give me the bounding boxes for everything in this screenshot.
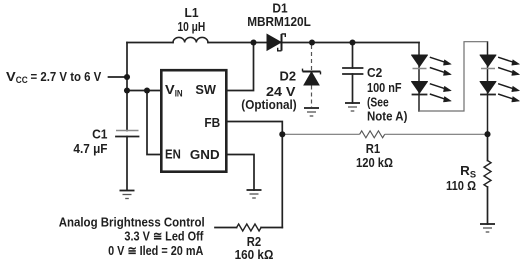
svg-text:GND: GND [190, 147, 220, 162]
svg-text:(Optional): (Optional) [241, 97, 296, 112]
svg-text:120 kΩ: 120 kΩ [356, 155, 393, 170]
svg-text:3.3 V ≅ Led Off: 3.3 V ≅ Led Off [124, 228, 204, 243]
svg-text:EN: EN [165, 146, 181, 161]
svg-text:V: V [6, 69, 16, 84]
svg-text:R1: R1 [366, 141, 380, 156]
svg-text:C2: C2 [367, 65, 382, 80]
svg-text:IN: IN [175, 88, 183, 99]
svg-text:4.7 μF: 4.7 μF [73, 141, 107, 156]
svg-text:10 μH: 10 μH [178, 19, 206, 34]
svg-text:100 nF: 100 nF [367, 80, 402, 95]
svg-text:= 2.7 V to 6 V: = 2.7 V to 6 V [31, 69, 102, 84]
svg-text:D2: D2 [280, 68, 297, 83]
svg-text:FB: FB [204, 115, 220, 130]
svg-text:C1: C1 [92, 126, 107, 141]
svg-text:MBRM120L: MBRM120L [247, 14, 311, 29]
svg-text:0 V ≅ Iled = 20 mA: 0 V ≅ Iled = 20 mA [108, 243, 203, 258]
svg-text:110 Ω: 110 Ω [446, 178, 476, 193]
svg-text:Note A): Note A) [367, 108, 407, 123]
svg-text:R: R [460, 163, 470, 178]
svg-text:Analog Brightness Control: Analog Brightness Control [59, 214, 205, 229]
svg-text:V: V [165, 82, 175, 97]
svg-text:CC: CC [16, 75, 28, 86]
svg-text:SW: SW [195, 82, 217, 97]
svg-text:160 kΩ: 160 kΩ [235, 247, 274, 262]
